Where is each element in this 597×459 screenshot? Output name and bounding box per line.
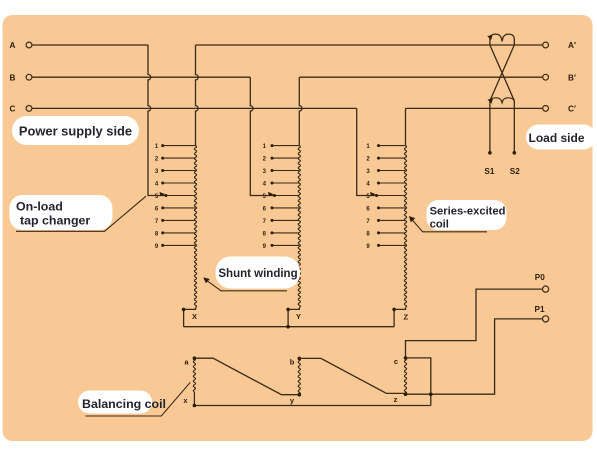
junction dot Y on bus [286, 325, 290, 329]
svg-text:Power supply side: Power supply side [19, 124, 132, 139]
selector arrow W3 [370, 192, 376, 196]
junction dot x on bus [193, 404, 197, 408]
series coil bottom feet [490, 101, 514, 109]
tap 9 lead W3 [379, 244, 406, 246]
tap 9 dot W2 [271, 244, 274, 247]
terminal C (power side) [26, 106, 32, 112]
svg-text:On-load: On-load [16, 200, 63, 214]
series coil bottom arcs [490, 98, 514, 103]
winding W1 riser [196, 45, 199, 146]
tap 2 dot W3 [377, 157, 380, 160]
svg-text:S2: S2 [510, 167, 520, 176]
crossover diagonal 2 [490, 45, 514, 101]
selector arrow W2 [268, 192, 274, 196]
wire phase B supply [32, 76, 250, 78]
tap 2 dot W1 [161, 157, 164, 160]
series coil top arcs [490, 34, 514, 41]
winding W3 bottom jog [394, 308, 405, 327]
tap 2 lead W1 [163, 157, 196, 159]
tap 5 lead W2 [275, 195, 300, 197]
neutral bus X-Y-Z [184, 326, 395, 328]
svg-text:c: c [394, 357, 398, 366]
leader shunt winding [207, 280, 288, 291]
wire C tap-selector feed [357, 108, 377, 195]
wire P1 to node z [406, 319, 543, 394]
wire a to y diagonal [194, 358, 299, 395]
svg-text:C′: C′ [568, 105, 576, 114]
tap 5 lead W3 [377, 195, 406, 197]
terminal C&#8242; (load side) [543, 106, 549, 112]
leader balancing coil [85, 382, 190, 416]
wire P0 to coil c top [406, 289, 543, 358]
svg-text:A: A [10, 41, 16, 50]
wire A tap-selector feed [148, 45, 166, 195]
tap 7 lead W1 [163, 219, 196, 221]
tap 3 dot W2 [271, 169, 274, 172]
node z dot [404, 392, 408, 396]
tap 4 dot W1 [161, 182, 164, 185]
balancing coil a tail [193, 392, 195, 406]
S2 end dot [513, 151, 517, 155]
tap 7 dot W2 [271, 219, 274, 222]
tap 8 lead W1 [163, 232, 196, 234]
shunt coil W1 [194, 146, 196, 308]
wire b to z diagonal [299, 358, 405, 393]
tap 6 lead W2 [272, 207, 299, 209]
wire S2 drop [513, 108, 515, 152]
wire S1 drop [489, 108, 491, 152]
svg-text:X: X [192, 312, 197, 321]
tap 4 lead W3 [379, 182, 406, 184]
svg-text:Series-excited: Series-excited [430, 206, 506, 218]
balancing coil c [404, 358, 406, 394]
bubble on-load tap changer [9, 195, 112, 230]
tap 9 dot W1 [161, 244, 164, 247]
node y dot [298, 393, 302, 397]
tap 4 dot W2 [271, 182, 274, 185]
tap 1 dot W2 [271, 144, 274, 147]
series coil bottom arrow [488, 98, 494, 103]
tap 5 lead W1 [166, 195, 196, 197]
tap 1 lead W1 [163, 145, 196, 147]
tap 5 dot W1 [165, 194, 168, 197]
svg-text:b: b [290, 358, 295, 367]
tap 6 dot W2 [271, 206, 274, 209]
tap 8 dot W3 [377, 231, 380, 234]
wire phase C load line [406, 107, 543, 109]
tap 8 dot W1 [161, 231, 164, 234]
winding W1 bottom jog [184, 308, 196, 327]
balancing bus x [194, 405, 430, 407]
tap 3 dot W1 [161, 169, 164, 172]
svg-text:P1: P1 [535, 305, 545, 314]
tap 7 dot W1 [161, 219, 164, 222]
wire B tap-selector feed [250, 77, 274, 195]
svg-text:tap changer: tap changer [20, 214, 90, 228]
selector arrow W1 [160, 192, 166, 196]
winding W2 bottom jog [288, 308, 299, 327]
bubble load side [526, 125, 596, 150]
tap 6 dot W3 [377, 206, 380, 209]
tap 1 lead W2 [272, 145, 299, 147]
tap 2 lead W3 [379, 157, 406, 159]
junction dot W3 bottom [392, 308, 396, 312]
terminal P1 [543, 316, 549, 322]
tap 6 lead W3 [379, 207, 406, 209]
tap 1 lead W3 [379, 145, 406, 147]
tap 3 lead W2 [272, 170, 299, 172]
svg-text:Shunt winding: Shunt winding [218, 268, 297, 280]
tap 6 dot W1 [161, 206, 164, 209]
tap 8 lead W2 [272, 232, 299, 234]
junction dot on z line [429, 392, 433, 396]
crossover diagonal 1 [490, 45, 514, 101]
tap 3 lead W1 [163, 170, 196, 172]
terminal A&#8242; (load side) [543, 42, 549, 48]
svg-text:S1: S1 [484, 167, 494, 176]
leader series-excited coil [412, 220, 487, 232]
junction dot W1 bottom [182, 308, 186, 312]
tap 3 dot W3 [377, 169, 380, 172]
bubble balancing coil [78, 391, 152, 414]
bubble shunt winding [216, 257, 301, 289]
winding W3 riser [405, 108, 407, 145]
balancing coil b [298, 358, 300, 394]
balancing coil a [193, 358, 195, 392]
tap 9 lead W1 [163, 244, 196, 246]
svg-text:B: B [10, 73, 16, 82]
arrow shunt winding [203, 277, 210, 283]
wire c top to right bar [406, 358, 431, 406]
junction dot W2 bottom [286, 308, 290, 312]
svg-text:coil: coil [430, 218, 449, 230]
node c dot [404, 356, 408, 360]
wire phase A supply [32, 44, 148, 46]
tap 4 lead W2 [272, 182, 299, 184]
tap 6 lead W1 [163, 207, 196, 209]
terminal B&#8242; (load side) [543, 74, 549, 80]
tap 5 dot W2 [273, 194, 276, 197]
tap 2 lead W2 [272, 157, 299, 159]
tap 7 lead W3 [379, 219, 406, 221]
tap 5 dot W3 [375, 194, 378, 197]
tap 9 dot W3 [377, 244, 380, 247]
svg-text:z: z [394, 395, 398, 404]
tap 7 lead W2 [272, 219, 299, 221]
svg-text:B′: B′ [568, 73, 576, 82]
tap 4 dot W3 [377, 182, 380, 185]
arrow series-excited coil [409, 216, 415, 222]
shunt coil W3 [404, 146, 406, 308]
node a dot [193, 356, 197, 360]
svg-text:C: C [10, 105, 16, 114]
bubble power supply side [12, 116, 139, 145]
terminal P0 [543, 286, 549, 292]
svg-text:Balancing coil: Balancing coil [82, 397, 166, 411]
tap 9 lead W2 [272, 244, 299, 246]
leader on-load tap changer [16, 196, 146, 231]
tap 8 lead W3 [379, 232, 406, 234]
shunt coil W2 [298, 146, 300, 308]
node b dot [298, 357, 302, 361]
svg-text:P0: P0 [535, 273, 545, 282]
wire phase B load line [299, 76, 542, 78]
series coil top arrow [487, 35, 492, 40]
tap 4 lead W1 [163, 182, 196, 184]
svg-text:Load side: Load side [528, 131, 584, 145]
terminal B (power side) [26, 74, 32, 80]
series coil top feet [490, 38, 514, 45]
terminal A (power side) [26, 42, 32, 48]
svg-text:Z: Z [404, 313, 409, 322]
tap 1 dot W3 [377, 144, 380, 147]
svg-text:A′: A′ [568, 41, 576, 50]
tap 2 dot W2 [271, 157, 274, 160]
tap 8 dot W2 [271, 231, 274, 234]
wire phase A load line [196, 44, 543, 46]
tap 7 dot W3 [377, 219, 380, 222]
S1 end dot [488, 151, 492, 155]
svg-text:Y: Y [296, 312, 301, 321]
wire phase C supply [32, 107, 357, 109]
tap 3 lead W3 [379, 170, 406, 172]
tap 1 dot W1 [161, 144, 164, 147]
bubble series-excited coil [427, 200, 507, 230]
winding W2 riser [299, 77, 302, 145]
